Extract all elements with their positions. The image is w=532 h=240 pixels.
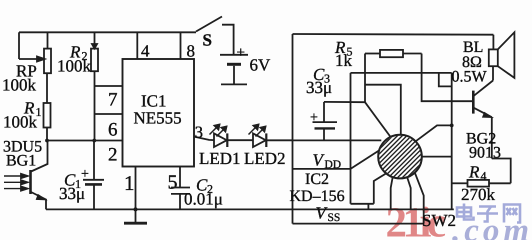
svg-text:6V: 6V [250, 56, 272, 75]
resistor R1 [44, 103, 51, 141]
node junction R1/pin2 [45, 139, 49, 143]
wire long vertical [350, 73, 352, 204]
pin 2 wire [47, 140, 123, 142]
svg-text:S: S [203, 31, 212, 50]
potentiometer RP [19, 32, 51, 73]
IC2 die blob [362, 119, 438, 195]
music board outline bottom [293, 223, 424, 225]
wire board top to speaker [492, 35, 494, 50]
wire blob west diagonal [351, 151, 380, 169]
pin 3 wire [194, 137, 214, 141]
node junction R2/pin2 [92, 139, 96, 143]
pin 4 wire [136, 32, 138, 59]
wire V1 vertical [451, 73, 453, 210]
watermark hanzi 子 [477, 207, 498, 222]
pin 7 wire [95, 85, 123, 87]
resistor R2 [91, 32, 98, 140]
svg-text:8: 8 [187, 42, 196, 61]
wire RP to R1 [46, 73, 48, 103]
node junction NE/V1 [450, 124, 454, 128]
watermark 21ic.com 电子网 [386, 200, 532, 240]
battery 6V [220, 55, 248, 85]
svg-text:5: 5 [168, 172, 178, 194]
op-amp-box IC1 NE555 [123, 59, 195, 167]
svg-text:+: + [81, 167, 89, 182]
music board outline left [292, 34, 294, 224]
wire BG2 emitter down [491, 117, 493, 158]
svg-text:NE555: NE555 [134, 109, 182, 128]
phototransistor BG1 [31, 141, 48, 210]
svg-text:DD: DD [325, 159, 342, 171]
pin 1 wire [135, 167, 137, 210]
svg-text:0.01μ: 0.01μ [184, 190, 223, 209]
wire BG2 collector up [492, 66, 494, 80]
svg-text:100k: 100k [3, 113, 38, 132]
switch S [196, 17, 234, 55]
wire blob S1 [391, 178, 393, 209]
LED1 [210, 125, 228, 148]
svg-text:4: 4 [141, 42, 150, 61]
jog down to rail [367, 204, 369, 210]
watermark hanzi 网 [504, 205, 520, 223]
svg-text:33μ: 33μ [306, 78, 332, 97]
watermark hanzi 电 [457, 204, 474, 220]
wire blob east [422, 156, 452, 158]
wire top supply rail [19, 31, 196, 33]
wire blob NE [416, 125, 452, 141]
wire osc jog to blob north [365, 85, 401, 136]
resistor R5 [365, 50, 422, 57]
capacitor C3 [313, 102, 338, 140]
svg-text:6: 6 [108, 120, 118, 141]
wire blob S2 [407, 178, 410, 210]
wire osc node to blob NW [365, 102, 391, 137]
resistor R4 [452, 180, 511, 187]
svg-text:LED2: LED2 [244, 149, 286, 168]
transistor BG2 [473, 81, 493, 118]
pin 5 wire [179, 167, 181, 188]
wire cross T1 [351, 72, 452, 74]
music board outline top [293, 33, 494, 36]
svg-text:KD–156: KD–156 [290, 188, 345, 205]
wire RP wiper tap drop [18, 32, 20, 59]
svg-text:1: 1 [124, 171, 135, 195]
jog square [439, 73, 452, 87]
wire blob SE [415, 173, 424, 224]
svg-text:7: 7 [108, 90, 118, 111]
wire R5 right to BG2 base [422, 54, 474, 102]
speaker BL [489, 32, 515, 78]
wire R5 left branch down [364, 54, 366, 103]
wire emitter to R4 loop [492, 159, 511, 184]
wire blob SW [374, 174, 386, 204]
svg-text:SW2: SW2 [422, 211, 456, 230]
svg-text:4: 4 [481, 169, 487, 183]
svg-text:BG1: BG1 [6, 153, 36, 170]
LED2 [249, 125, 267, 148]
svg-text:270k: 270k [461, 185, 496, 204]
svg-text:R: R [468, 163, 480, 182]
svg-text:2: 2 [108, 145, 118, 166]
svg-text:3: 3 [195, 123, 203, 142]
shelf wire VDD row [293, 168, 351, 170]
svg-text:0.5W: 0.5W [452, 69, 488, 86]
wire bottom ground rail [46, 208, 454, 210]
svg-text:33μ: 33μ [59, 184, 85, 203]
capacitor C1 [83, 141, 104, 210]
wire trigger into board to blob [293, 139, 382, 141]
svg-text:SS: SS [328, 212, 341, 224]
svg-text:100k: 100k [57, 57, 92, 76]
pin 8 wire [180, 32, 182, 59]
wire C3 top to osc node [324, 101, 365, 103]
svg-text:1k: 1k [335, 51, 353, 70]
svg-text:100k: 100k [2, 76, 37, 95]
svg-text:LED1: LED1 [199, 149, 241, 168]
svg-text:+: + [237, 45, 245, 61]
wire LED1 to LED2 [227, 139, 253, 141]
svg-text:IC2: IC2 [305, 171, 329, 188]
wire LED2 to board [266, 139, 292, 141]
shelf wire under KD-156 [351, 203, 374, 205]
light arrows into BG1 [4, 174, 28, 191]
svg-text:+: + [310, 111, 318, 126]
pin 6 wire [95, 113, 123, 115]
ground [124, 207, 147, 223]
capacitor C2 [171, 188, 190, 210]
